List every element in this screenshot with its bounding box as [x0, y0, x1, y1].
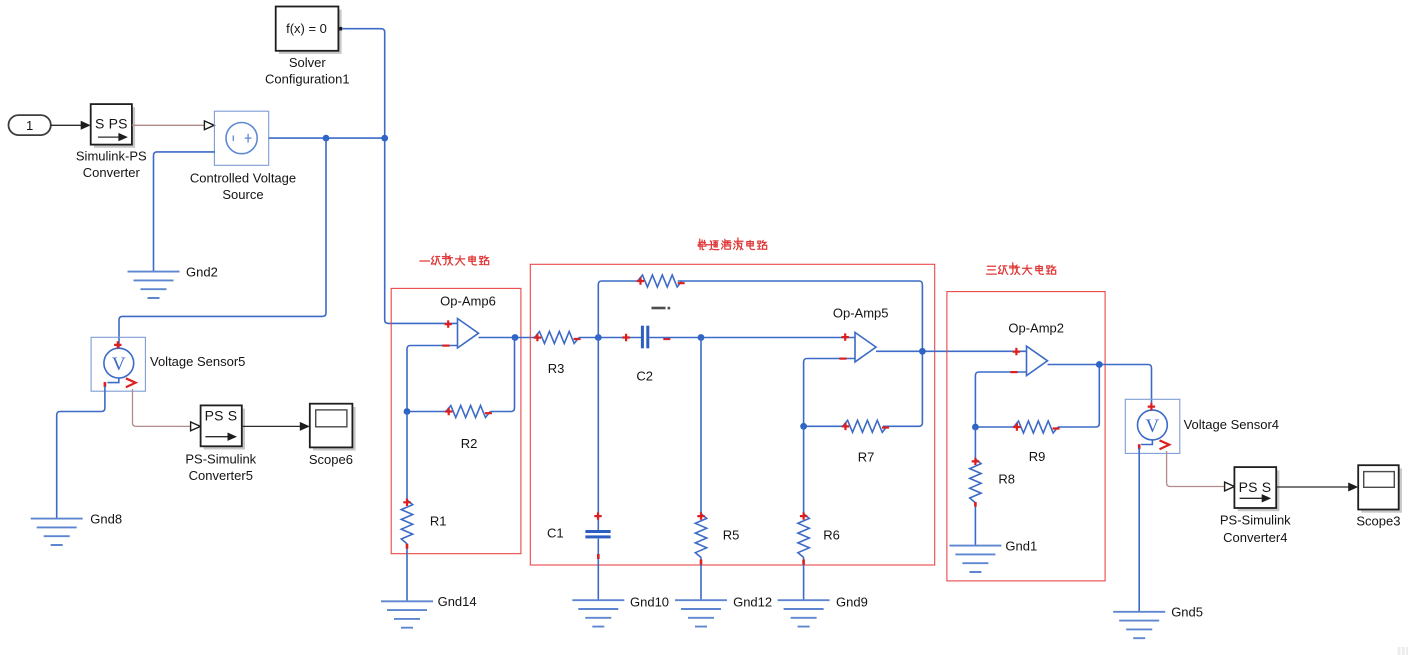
ground Gnd10 [572, 595, 669, 627]
svg-text:R5: R5 [723, 528, 740, 543]
svg-text:Solver: Solver [289, 55, 327, 70]
Simulink-PS Converter block [76, 104, 147, 180]
resistor R7 feedback [804, 420, 889, 464]
ground Gnd8 [31, 511, 122, 545]
wire Voltage Sensor5 - terminal to Gnd8 [57, 386, 105, 519]
region box band-pass filter [530, 264, 934, 565]
wire CVS output to node B [269, 137, 385, 139]
svg-text:S PS: S PS [95, 116, 128, 132]
wire node to Voltage Sensor5 + terminal [119, 138, 326, 348]
node junction after R3 [595, 334, 602, 341]
region caption third-stage amplifier (CJK strokes) [987, 263, 1056, 275]
wire Voltage Sensor4 - terminal to Gnd5 [1138, 448, 1140, 612]
svg-text:Op-Amp2: Op-Amp2 [1008, 321, 1064, 336]
svg-text:R6: R6 [823, 527, 840, 542]
svg-text:R3: R3 [548, 361, 565, 376]
svg-text:1: 1 [26, 118, 33, 133]
wire Op-Amp6 output to junction and R3 [479, 337, 535, 339]
svg-text:R7: R7 [858, 450, 875, 465]
Scope6 block [309, 404, 356, 468]
svg-text:Op-Amp5: Op-Amp5 [833, 306, 889, 321]
node junction Op-Amp6 output [512, 334, 519, 341]
node junction D (R8/R9) [972, 424, 979, 431]
ground Gnd12 [675, 595, 772, 627]
resistor R9 feedback [975, 365, 1099, 464]
Controlled Voltage Source [190, 111, 296, 202]
region caption first-stage amplifier (CJK strokes) [420, 253, 489, 265]
node junction Op-Amp2 output [1096, 361, 1103, 368]
wire PS-Simulink Converter4 to Scope3 [1276, 483, 1358, 492]
svg-text:R8: R8 [998, 472, 1015, 487]
svg-text:R2: R2 [461, 436, 478, 451]
node junction C (R6/R7) [800, 423, 807, 430]
svg-text:Gnd12: Gnd12 [733, 595, 772, 610]
wire C2 to Op-Amp5 + input [649, 337, 855, 339]
Voltage Sensor4 [1125, 399, 1279, 453]
region box first-stage amplifier [391, 288, 521, 553]
svg-text:Converter4: Converter4 [1223, 530, 1287, 545]
PS-Simulink Converter5 block [185, 405, 256, 483]
svg-text:PS S: PS S [205, 408, 238, 424]
ground Gnd14 [381, 594, 477, 628]
svg-text:C1: C1 [547, 525, 564, 540]
svg-text:Source: Source [222, 187, 263, 202]
resistor R5 to ground [695, 338, 739, 601]
resistor R1 to ground [401, 412, 446, 602]
svg-text:Voltage Sensor4: Voltage Sensor4 [1184, 417, 1279, 432]
svg-text:R9: R9 [1029, 449, 1046, 464]
wire Op-Amp6 - input to feedback node A [407, 346, 458, 412]
ground Gnd9 [778, 595, 868, 627]
wire node down to C1 [597, 338, 599, 601]
svg-text:Scope6: Scope6 [309, 452, 353, 467]
feedback resistor R4 (label hidden) [637, 275, 685, 309]
svg-text:Op-Amp6: Op-Amp6 [440, 294, 496, 309]
node junction at CVS output branch [323, 135, 330, 142]
wire Solver Configuration1 to node B and down to Op-Amp6 + input [342, 29, 457, 324]
wire inport to Simulink-PS Converter [51, 121, 91, 130]
region box third-stage amplifier [947, 292, 1105, 581]
wire Op-Amp2 output to Voltage Sensor4 + terminal [1048, 365, 1152, 411]
svg-text:Gnd8: Gnd8 [90, 511, 122, 526]
svg-text:Controlled Voltage: Controlled Voltage [190, 171, 296, 186]
resistor R8 to ground [970, 427, 1015, 546]
Voltage Sensor5 [91, 337, 245, 391]
svg-text:Configuration1: Configuration1 [265, 72, 350, 87]
svg-text:PS-Simulink: PS-Simulink [1220, 512, 1291, 527]
node junction C2 right / R5 branch [698, 334, 705, 341]
svg-text:Gnd9: Gnd9 [836, 595, 868, 610]
svg-text:Voltage Sensor5: Voltage Sensor5 [150, 354, 245, 369]
svg-text:Gnd14: Gnd14 [438, 594, 477, 609]
wire CVS negative terminal to Gnd2 [154, 152, 215, 272]
capacitor C1 to ground [547, 512, 611, 559]
svg-text:Gnd2: Gnd2 [186, 264, 218, 279]
resistor R3 [534, 332, 581, 377]
wire Op-Amp5 output to Op-Amp2 + input [876, 350, 1027, 352]
PS wire Simulink-PS Converter to Controlled Voltage Source [132, 121, 214, 130]
capacitor C2 [622, 326, 670, 384]
svg-text:Simulink-PS: Simulink-PS [76, 148, 147, 163]
node junction at solver drop [381, 135, 388, 142]
Solver Configuration1 block [265, 7, 350, 87]
Op-Amp2 [1008, 321, 1064, 376]
svg-text:PS S: PS S [1239, 479, 1272, 495]
wire node up to feedback resistor R4 and across to Op-Amp5 output node [598, 281, 922, 426]
wire R3 to C2 [579, 337, 641, 339]
wire Op-Amp2 - input down to node D [975, 372, 1026, 427]
svg-text:Scope3: Scope3 [1356, 513, 1400, 528]
svg-text:V: V [1146, 416, 1160, 437]
node junction Op-Amp5 output [919, 348, 926, 355]
PS-Simulink Converter4 block [1220, 467, 1291, 545]
wire Op-Amp5 - input down to node C [804, 359, 855, 427]
svg-text:Converter5: Converter5 [189, 468, 253, 483]
svg-text:PS-Simulink: PS-Simulink [185, 451, 256, 466]
resistor R6 to ground [798, 426, 840, 600]
svg-text:Converter: Converter [83, 165, 141, 180]
PS wire Voltage Sensor4 output to PS-Simulink Converter4 [1167, 451, 1235, 491]
wire PS-Simulink Converter5 to Scope6 [242, 422, 310, 431]
inport 1 [9, 115, 51, 135]
node junction A (inverting node) [404, 408, 411, 415]
Scope3 block [1356, 465, 1402, 528]
ground Gnd5 [1113, 605, 1203, 639]
svg-text:f(x) = 0: f(x) = 0 [286, 21, 327, 36]
Op-Amp6 [440, 294, 496, 349]
svg-text:V: V [112, 354, 126, 375]
svg-text:Gnd5: Gnd5 [1171, 605, 1203, 620]
region caption band-pass filter (CJK strokes) [698, 238, 766, 250]
Op-Amp5 [833, 306, 889, 362]
ground Gnd1 [949, 538, 1037, 572]
svg-text:R1: R1 [430, 514, 447, 529]
ground Gnd2 [128, 264, 218, 298]
svg-text:Gnd1: Gnd1 [1005, 538, 1037, 553]
resistor R2 feedback path [407, 338, 515, 451]
svg-text:Gnd10: Gnd10 [630, 595, 669, 610]
svg-text:C2: C2 [636, 369, 653, 384]
corner watermark [1398, 647, 1408, 655]
PS wire Voltage Sensor5 output to PS-Simulink Converter5 [133, 389, 201, 431]
